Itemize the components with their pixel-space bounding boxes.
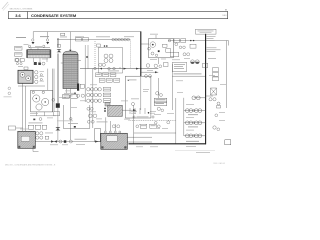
svg-text:MNL 093 - CONDENSATE AND FEEDW: MNL 093 - CONDENSATE AND FEEDWATER SYSTE… xyxy=(5,164,56,167)
svg-text:CONDENSATE SYSTEM: CONDENSATE SYSTEM xyxy=(31,13,77,18)
svg-text:SECTION 3 - SYSTEMS: SECTION 3 - SYSTEMS xyxy=(10,8,33,10)
svg-text:3.6: 3.6 xyxy=(15,13,21,18)
svg-text:3.6-1: 3.6-1 xyxy=(222,15,226,17)
svg-text:REV 0 JAN 03: REV 0 JAN 03 xyxy=(213,162,225,165)
